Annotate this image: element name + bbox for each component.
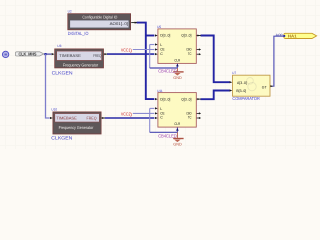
pin stub CE1 arrow [155,48,158,50]
wire U2 output bus down to D inputs [137,23,155,100]
block U3 Frequency Generator [55,49,104,68]
wire CLR2 [150,131,178,133]
pin stub GT [270,85,273,87]
svg-text:Configurable Digital IO: Configurable Digital IO [82,15,117,20]
svg-text:CB4CLED: CB4CLED [158,69,177,74]
wire comparator GT to port HA1 [272,36,283,86]
svg-text:FREQ: FREQ [93,53,101,58]
svg-text:AO0: AO0 [276,33,283,37]
svg-text:D[3..0]: D[3..0] [160,97,170,101]
pin stub CLR1 [176,63,178,68]
wire Q2 bus to comparator B [201,91,230,100]
svg-text:Q[3..0]: Q[3..0] [181,34,191,38]
ground GND2 [173,132,183,146]
svg-text:A[3..0]: A[3..0] [237,81,247,85]
svg-text:Frequency Generator: Frequency Generator [59,125,94,130]
pin stub Q1 [197,34,201,36]
wire VCC1 to L1 CE1 [133,45,155,69]
pin stub C2 arrow [155,117,158,119]
svg-text:TIMEBASE: TIMEBASE [59,53,81,58]
pin stub FREQ1 [104,53,108,55]
pin stub U2 AO01 [131,22,137,24]
svg-text:GT: GT [262,85,268,89]
pin stub D1 arrow [155,34,158,36]
pin stub TIMEBASE1 arrow [52,53,55,55]
svg-text:U2: U2 [68,10,72,14]
pin stubs CEO2 TC2 [197,113,200,118]
wire CLR1 [150,67,178,69]
svg-text:TC: TC [188,116,192,120]
svg-text:GND: GND [173,76,182,80]
svg-text:AO01[..0]: AO01[..0] [110,21,128,26]
sheet connector circle [2,51,8,57]
block U10 Frequency Generator [53,112,101,134]
svg-text:CLKGEN: CLKGEN [51,135,73,141]
svg-text:CLK_MHS: CLK_MHS [19,51,37,56]
ground GND1 [173,68,183,80]
wire VCC2 to L2 CE2 [133,108,155,132]
counter U11 CB4CLED [158,93,196,128]
pin stub C1 arrow [155,53,158,55]
svg-text:COMPARATOR: COMPARATOR [232,96,259,101]
svg-text:CB4CLED: CB4CLED [158,133,177,138]
svg-text:B[3..0]: B[3..0] [236,89,246,93]
svg-text:GND: GND [173,142,182,146]
junction CLK node [44,53,46,55]
pin stub TIMEBASE2 arrow [50,117,53,119]
pin stub CLR2 [176,127,178,132]
svg-text:Frequency Generator: Frequency Generator [63,62,99,67]
pin stub comparator B arrow [230,89,233,91]
svg-text:U5: U5 [157,25,161,29]
port HA1 [283,33,316,38]
svg-text:U11: U11 [157,89,163,93]
port CLK_MHS [15,51,43,56]
svg-text:DIGITAL_IO: DIGITAL_IO [68,31,89,36]
pin stubs CEO1 TC1 [197,50,200,55]
wire CLK node down to U10 TIMEBASE [46,54,50,118]
pin stub FREQ2 [101,117,105,119]
svg-text:TIMEBASE: TIMEBASE [56,115,77,120]
svg-text:C: C [160,52,163,56]
svg-text:L: L [160,43,162,47]
svg-text:D[3..0]: D[3..0] [160,34,170,38]
pin stub CE2 arrow [155,112,158,114]
counter U5 CB4CLED [158,29,196,64]
wire FREQ2 to C2 [105,117,155,119]
comparator U7 [233,75,271,96]
pin stub Q2 [197,98,201,100]
net label VCC1 [121,47,132,54]
svg-text:Q[3..0]: Q[3..0] [181,97,191,101]
svg-text:C: C [160,116,163,120]
wire Q1 bus to comparator A [201,36,230,83]
svg-text:U10: U10 [51,108,57,112]
svg-text:CLR: CLR [174,122,180,126]
pin stub L2 arrow [155,107,158,109]
wire CLK_MHS to U3 TIMEBASE [44,53,52,55]
svg-text:HA1: HA1 [288,33,297,38]
pin stub L1 arrow [155,43,158,45]
svg-text:L: L [160,107,162,111]
wire FREQ1 to C1 [107,53,154,55]
pin stub D2 arrow [155,98,158,100]
net label VCC2 [121,111,132,118]
pin stub comparator A arrow [230,81,233,83]
svg-text:TC: TC [188,52,192,56]
svg-text:FREQ: FREQ [87,115,97,120]
svg-text:CLR: CLR [174,58,180,62]
svg-text:CLKGEN: CLKGEN [52,70,74,76]
svg-text:U7: U7 [232,71,236,75]
svg-text:U3: U3 [57,44,61,48]
block U2 Configurable Digital IO [68,14,131,30]
